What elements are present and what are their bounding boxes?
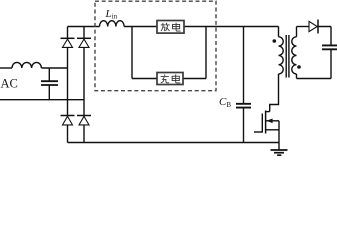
transformer T1 secondary top lead [296, 27, 298, 37]
capacitor CB bottom stem [243, 108, 245, 143]
transistor Q1 gate lead [254, 131, 262, 133]
transformer T1 primary winding [279, 37, 284, 74]
transistor Q1 body line [266, 120, 279, 122]
transistor Q1 channel bar [265, 111, 267, 134]
diode D1 (bridge upper-left) [61, 37, 75, 39]
wire AC top line [0, 67, 12, 69]
capacitor CB top stem [243, 27, 245, 104]
transistor Q1 source lead down [278, 121, 280, 143]
capacitor CB plates [236, 104, 251, 108]
ground bars [271, 149, 288, 151]
wire branch to charge block [132, 78, 157, 80]
wire diode to output cap [317, 27, 331, 46]
电 glyph (charge box char 2) [172, 74, 180, 83]
wire from L1 to bridge [41, 67, 67, 69]
wire top rail [68, 26, 100, 28]
transformer T1 primary top lead [278, 27, 280, 37]
wire output loop bottom [297, 78, 332, 80]
capacitor C1 (AC filter) top stem [48, 68, 50, 81]
transformer T1 secondary polarity dot [297, 65, 301, 69]
capacitor C1 bottom stem [48, 85, 50, 100]
wire discharge block to transformer [184, 26, 279, 28]
wire branch down from rail at node A [131, 27, 133, 79]
svg-text:AC: AC [1, 77, 18, 91]
inductor L1 (AC line filter) [12, 62, 41, 68]
capacitor C1 plates [41, 81, 58, 85]
wire bridge left leg [67, 27, 69, 143]
wire bridge right leg [83, 27, 85, 143]
block 放电 (discharge) box [157, 21, 184, 34]
transformer T1 core [286, 35, 289, 78]
wire branch up to rail at node B [205, 27, 207, 79]
transistor Q1 body arrowhead [266, 119, 272, 124]
transformer T1 primary polarity dot [273, 39, 277, 43]
capacitor C2 (output) plates [322, 45, 337, 49]
transistor Q1 source stub [266, 129, 279, 131]
diode D2 (bridge upper-right) [77, 37, 91, 39]
ground stem [278, 143, 280, 151]
wire secondary to output diode [297, 26, 310, 28]
diode D3 (bridge lower-left) [61, 115, 75, 117]
capacitor C2 bottom stem [330, 49, 332, 78]
wire Lin to discharge block [124, 26, 157, 28]
wire AC bottom line [0, 99, 84, 101]
transistor Q1 drain stub [266, 111, 270, 113]
transformer T1 secondary bottom lead [296, 74, 298, 79]
wire bottom bus [68, 142, 280, 144]
diode D4 (bridge lower-right) [77, 115, 91, 117]
transformer T1 primary bottom lead [270, 74, 279, 112]
放 glyph (discharge box char 1) [161, 23, 170, 31]
充 glyph (charge box char 1) [161, 74, 170, 83]
transistor Q1 gate bar [261, 114, 263, 133]
transformer T1 secondary winding [292, 37, 297, 74]
dashed control box [95, 1, 216, 91]
block 充电 (charge) box [157, 73, 183, 85]
diode D5 (output rectifier) [309, 21, 317, 31]
svg-text:Lin: Lin [105, 8, 118, 21]
inductor Lin [100, 21, 125, 27]
wire charge block to node B [183, 78, 206, 80]
电 glyph (discharge box char 2) [173, 23, 181, 32]
svg-text:CB: CB [219, 96, 231, 109]
